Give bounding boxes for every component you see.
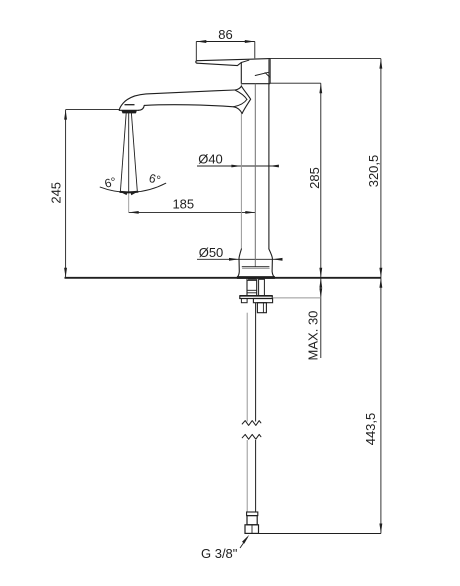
svg-text:285: 285 <box>307 167 322 189</box>
svg-text:Ø40: Ø40 <box>198 151 223 166</box>
svg-text:245: 245 <box>49 182 64 204</box>
svg-text:86: 86 <box>218 27 232 42</box>
svg-text:443,5: 443,5 <box>363 413 378 446</box>
svg-text:MAX. 30: MAX. 30 <box>306 311 321 361</box>
svg-text:Ø50: Ø50 <box>199 245 224 260</box>
svg-text:G 3/8": G 3/8" <box>201 546 238 561</box>
svg-text:185: 185 <box>172 196 194 211</box>
svg-text:320,5: 320,5 <box>366 155 381 188</box>
